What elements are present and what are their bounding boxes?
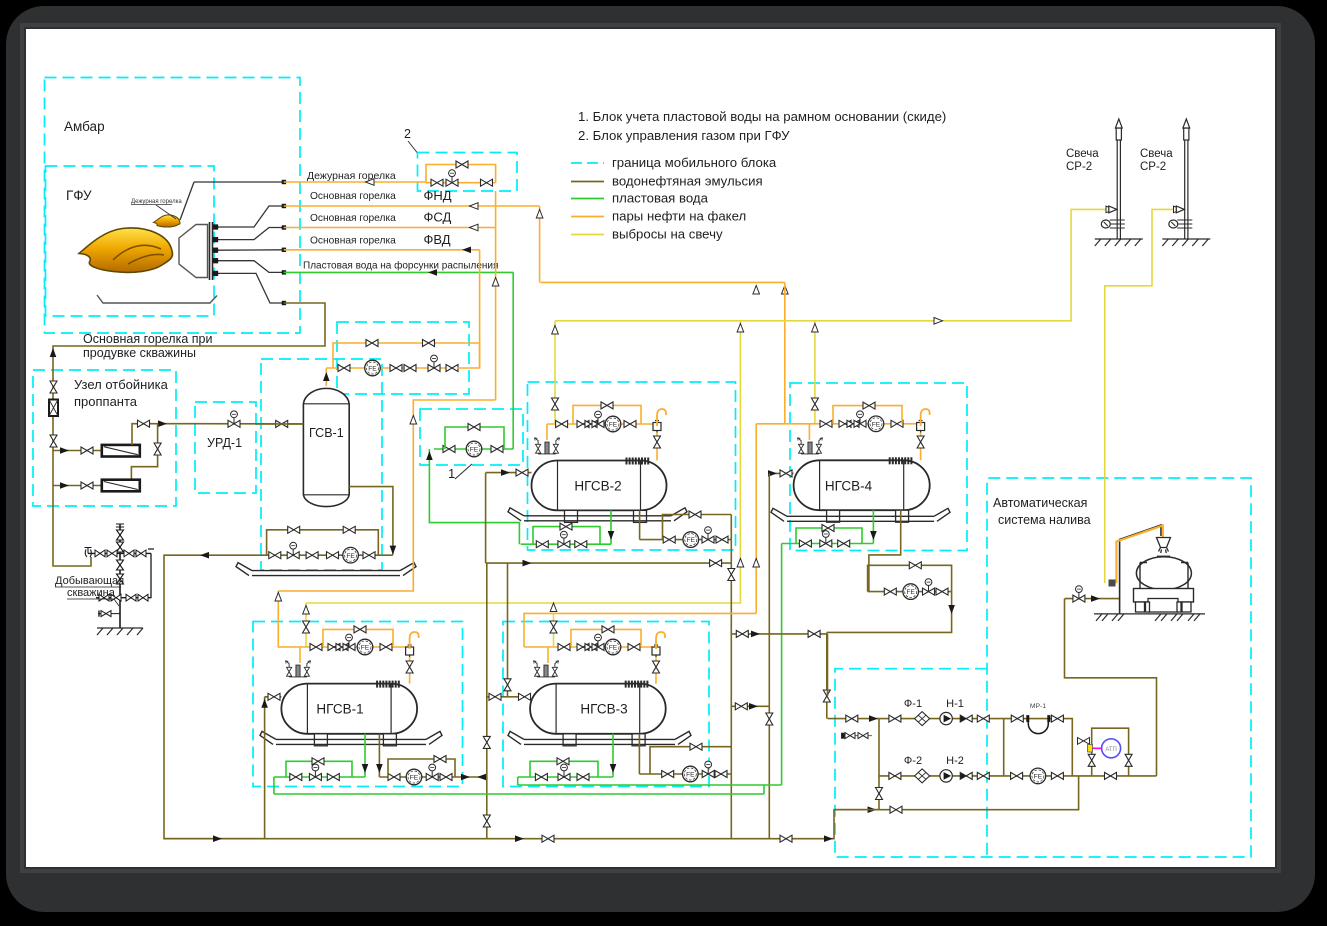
pipe block2 main (426, 182, 496, 184)
valve metering 2 (390, 365, 402, 372)
boundary box 2 (блок управления газом) (418, 153, 518, 192)
flow meter FE НГСВ-1 oil (406, 769, 422, 785)
ground under truck (1094, 614, 1205, 621)
valve НГСВ-2 oil 2 (716, 536, 728, 543)
pipe header riser to НГСВ-4 area (784, 282, 786, 423)
svg-text:Дежурная горелка: Дежурная горелка (131, 199, 182, 205)
wire дежурная горелка horizontal (194, 181, 284, 183)
pipe upper-lower connector (131, 424, 157, 480)
svg-text:скважина: скважина (67, 587, 116, 599)
valve metering 4 (446, 365, 458, 372)
pipe НГСВ-1 inlet riser (264, 697, 266, 839)
safety valves PSV НГСВ-3 (533, 661, 558, 677)
pipe НГСВ-4 inlet (769, 472, 793, 474)
arrow svecha-1 inlet (1106, 206, 1115, 213)
valve block1 right (491, 446, 503, 453)
valve НГСВ-3 inlet b (519, 693, 531, 700)
valve block1 left (443, 446, 455, 453)
pipe ГСВ-1 gas riser (325, 368, 327, 386)
pipe НГСВ-3 relief riser (553, 613, 555, 647)
pipe ФВД riser (479, 250, 481, 368)
arrow to УРД (158, 420, 167, 427)
pipe НГСВ-4 water out riser (781, 544, 783, 786)
pipe НГСВ-1 oil main (379, 776, 486, 778)
safety valves PSV НГСВ-1 (285, 661, 310, 677)
arrow svecha-2 inlet (1174, 206, 1183, 213)
burner pin stubs (213, 225, 220, 275)
pipe НГСВ-2 inlet riser (485, 473, 487, 563)
valve НГСВ-3 oil 1 (662, 771, 674, 778)
valve НГСВ-1 gas bypass (354, 626, 366, 633)
arrow bottom header 1 (213, 835, 222, 842)
svg-text:1. Блок учета пластовой воды н: 1. Блок учета пластовой воды на рамном о… (578, 109, 946, 124)
valve НГСВ-3 inlet a (489, 693, 501, 700)
pipe НГСВ-3 oil drop (638, 734, 640, 774)
pipe ГСВ-1 bottom outlet (349, 487, 393, 555)
control valve НГСВ-2 gas (592, 411, 604, 427)
valve oil collector v1 (728, 569, 735, 581)
valve НГСВ-2 water bypass (560, 523, 572, 530)
valve НГСВ-4 gas 1 (820, 420, 832, 427)
hook sample point НГСВ-1 (410, 632, 419, 649)
arrow loading (1091, 595, 1100, 602)
valve ГСВ drain c (327, 552, 339, 559)
valve pump2 out (977, 772, 989, 779)
arrow svecha header right (934, 318, 943, 325)
pipe metering bypass 1 (333, 343, 415, 368)
pipe НГСВ-1 water bypass (286, 761, 352, 777)
arrow НГСВ-2 inlet (501, 469, 510, 476)
valve central A v2 (483, 815, 490, 827)
valve block2 main left (431, 179, 443, 186)
ground under wellhead (97, 628, 143, 635)
svg-text:НГСВ‑3: НГСВ‑3 (580, 702, 627, 717)
pipe block1 inlet riser (429, 449, 519, 544)
proppant filter upper (102, 445, 140, 457)
valve ГСВ drain a (269, 552, 281, 559)
wire пластовая вода на форсунки (burner side) (219, 261, 284, 273)
svg-text:Н‑1: Н‑1 (946, 698, 964, 710)
pipe ФНД burner line (284, 205, 540, 207)
valve НГСВ-4 gas 2 (839, 420, 851, 427)
valve НГСВ-1 oil bypass (434, 756, 446, 763)
svg-text:Автоматическая: Автоматическая (993, 496, 1087, 510)
pipe ГСВ-1 inlet (256, 423, 303, 425)
valve pump tie v (876, 788, 883, 800)
valve НГСВ-3 gas 2b (585, 644, 597, 651)
arrow on форсунки line (428, 269, 437, 276)
boundary box metering above ГСВ-1 (337, 322, 469, 394)
valve налива loop 1 (884, 588, 896, 595)
svg-text:Узел отбойника: Узел отбойника (74, 377, 169, 392)
svg-text:НГСВ‑1: НГСВ‑1 (316, 702, 363, 717)
pipe НГСВ-1 inlet (265, 696, 282, 698)
pipe НГСВ-2 gas riser (546, 424, 548, 440)
arrow ГСВ-1 gas up (323, 372, 330, 381)
pipe НГСВ-1 gas riser2 (299, 647, 301, 663)
flow meter FE ГСВ drain (343, 547, 359, 563)
arrow branch lower (60, 482, 69, 489)
truck wheels (1136, 602, 1192, 612)
pump Н-1 (940, 712, 952, 724)
arrow НГСВ-1 oil left (477, 774, 486, 781)
arrow transfer right (523, 560, 532, 567)
pipe after upper filter (132, 424, 195, 445)
wire продувка (burner side) (219, 273, 284, 303)
pipe relief riser НГСВ-2 (554, 321, 556, 424)
wire junction square (282, 301, 286, 305)
filter Ф-2 (915, 769, 930, 783)
check valve Н-2 (960, 772, 972, 779)
valve transfer налива 2 (808, 630, 820, 637)
gauge square НГСВ-1 (406, 645, 414, 657)
boundary box Узел отбойника проппанта (33, 370, 176, 506)
valve НГСВ-4 water bypass (822, 525, 834, 532)
pipe налива FE loop bypass (868, 565, 952, 591)
valve pump2 in (889, 772, 901, 779)
wire junction square (282, 270, 286, 274)
device АТП-1 circle (1102, 739, 1121, 758)
valve metering bypass1 (366, 340, 378, 347)
control valve НГСВ-4 water (820, 531, 832, 547)
arrow on дежурная line (366, 179, 375, 186)
pipe НГСВ-1 oil bypass (388, 759, 455, 777)
valve НГСВ-1 water 1 (290, 774, 302, 781)
pipe flare header (541, 281, 785, 283)
pipe НГСВ-3 water main (518, 776, 613, 778)
valve relief НГСВ-1 (303, 621, 310, 633)
pipe пластовая вода на форсунки (284, 271, 514, 273)
underline of small label (131, 204, 172, 206)
arrow НГСВ-1 gas up (410, 416, 417, 425)
leader line to pilot flame (156, 205, 176, 219)
svg-text:Ф‑1: Ф‑1 (904, 698, 922, 710)
pipe proppant branch upper (54, 450, 103, 452)
svg-text:2: 2 (404, 127, 411, 141)
valve bottom header (542, 835, 554, 842)
flow meter FE НГСВ-2 oil (683, 532, 699, 548)
valve on lower-upper connector (154, 443, 161, 455)
wire junction square (282, 180, 286, 184)
pipe налива FE loop main (868, 591, 952, 593)
valve ГСВ drain b (306, 552, 318, 559)
arrow on ФНД line (470, 203, 479, 210)
valve МР-1 in (1011, 715, 1023, 722)
ground under stack 1 (1095, 239, 1143, 246)
hook sample point НГСВ-3 (656, 632, 665, 649)
pipe cross to НГСВ-4 riser (731, 705, 769, 707)
control valve НГСВ-3 water (558, 764, 570, 780)
svg-text:Основная горелка: Основная горелка (310, 236, 396, 247)
svg-text:Дежурная горелка: Дежурная горелка (307, 170, 396, 182)
inline filter on riser (49, 400, 58, 417)
valve relief НГСВ-2 (552, 398, 559, 410)
pipe water header lower (274, 793, 764, 795)
valve НГСВ-2 gas 2b (585, 421, 597, 428)
svg-text:Пластовая вода на форсунки рас: Пластовая вода на форсунки распыления (303, 260, 498, 272)
control valve ГСВ drain (287, 542, 299, 558)
svg-text:Основная горелка при: Основная горелка при (83, 332, 212, 346)
svg-text:ФСД: ФСД (424, 210, 452, 225)
valve pump1 out (977, 715, 989, 722)
arrow block1 in up (426, 451, 433, 460)
safety valves PSV НГСВ-4 (797, 438, 822, 454)
wellhead vertical stem (119, 524, 121, 628)
pipe НГСВ-1 oil drop (378, 734, 380, 777)
boundary box Амбар (45, 78, 301, 334)
valve branch upper (81, 447, 93, 454)
valve НГСВ-4 riser v (766, 713, 773, 725)
wellhead upper arm valves (95, 550, 146, 557)
flow meter FE НГСВ-3 gas (605, 639, 621, 655)
valve НГСВ-3 gas 1 (558, 644, 570, 651)
pipe НГСВ-3 gas out (647, 647, 656, 684)
pipe relief riser НГСВ-1 (305, 603, 307, 647)
arrow НГСВ-3 water down (610, 764, 617, 773)
valve НГСВ-2 water 1 (536, 541, 548, 548)
valve ГСВ bypass 2 (343, 526, 355, 533)
flow meter FE НГСВ-4 gas (868, 416, 884, 432)
control valve НГСВ-3 oil (702, 761, 714, 777)
pipe НГСВ-1 gas link (278, 400, 495, 591)
pipe bottom pump return (834, 776, 1079, 810)
safety valves PSV НГСВ-2 (534, 438, 559, 454)
pipe НГСВ-1 water drop (364, 734, 366, 777)
pipe НГСВ-3 oil bypass (650, 747, 731, 774)
wellhead left gauge hooks (85, 548, 92, 558)
hook sample point НГСВ-2 (657, 409, 666, 426)
wellhead upper arm (88, 552, 151, 554)
valve on riser 2 (50, 435, 57, 447)
flow meter FE налив (1030, 768, 1046, 784)
boundary box Автоматическая система налива (L-shape) (835, 478, 1251, 857)
valve НГСВ-2 water 2 (575, 541, 587, 548)
gauge square НГСВ-2 (653, 421, 661, 433)
arrow bottom header 2 (515, 835, 524, 842)
arrow НГСВ-4 inlet (768, 470, 777, 477)
АТП signal line magenta (1092, 747, 1101, 749)
pipe НГСВ-4 gas bypass (833, 406, 902, 424)
skid under НГСВ-1 (260, 731, 442, 744)
arrow relief collector up1 (737, 324, 744, 333)
valve НГСВ-4 gas out v (917, 436, 924, 448)
arrow налива loop down (948, 605, 955, 614)
pipe НГСВ-2 oil collector (730, 515, 732, 839)
pipe НГСВ-4 inlet riser (768, 473, 770, 838)
underline and leader for well label (55, 587, 121, 606)
pipe ФСД burner line (284, 227, 496, 229)
svg-text:ГСВ‑1: ГСВ‑1 (309, 426, 344, 440)
wellhead stem top fittings (116, 524, 124, 552)
gauge square НГСВ-4 (917, 421, 925, 433)
valve МР-1 out (1051, 715, 1063, 722)
pipe block1 outlet (511, 448, 514, 450)
flow meter FE налива (903, 584, 919, 600)
valve НГСВ-3 relief (550, 621, 557, 633)
pipe block1 main (434, 448, 511, 450)
pipe форсунки riser (512, 272, 514, 449)
pipe ФСД riser (495, 191, 497, 400)
svg-text:выбросы на свечу: выбросы на свечу (612, 227, 723, 242)
vessel НГСВ-1 (281, 684, 417, 734)
pipe НГСВ-2 water drop (610, 510, 612, 544)
pipe НГСВ-3 water bypass (530, 761, 598, 777)
pipe НГСВ-4 gas riser (808, 424, 810, 440)
wellhead drain stub (98, 611, 120, 617)
svg-text:ГФУ: ГФУ (66, 188, 92, 203)
arrow НГСВ-4 water down (870, 531, 877, 540)
valve НГСВ-3 oil 2 (715, 771, 727, 778)
truck lower body (1148, 599, 1178, 613)
pipe НГСВ-2 water bypass (533, 527, 600, 545)
boundary box ГФУ (46, 166, 215, 316)
wire junction square (282, 248, 286, 252)
pipe НГСВ-2 transfer line (486, 562, 732, 564)
arrow НГСВ-1 gas link up (275, 593, 282, 602)
legend line пластовая вода (571, 198, 604, 200)
flare stack свеча СР-2 №1 (1101, 119, 1125, 239)
pipe НГСВ-4 gas out (910, 424, 921, 461)
pipe ФНД riser (539, 206, 541, 282)
pipe metering bypass 2 (415, 343, 480, 368)
arrow НГСВ-1 oil right (461, 774, 470, 781)
filter Ф-1 (915, 712, 930, 726)
valve НГСВ-4 gas 3 (891, 420, 903, 427)
pipe svecha header (555, 209, 1116, 320)
arrow branch upper (60, 447, 69, 454)
pipe НГСВ-2 gas bypass (573, 405, 641, 424)
pipe НГСВ-4 gas main (785, 423, 910, 425)
svg-text:Свеча: Свеча (1140, 148, 1173, 160)
pipe МР-1 line (1004, 719, 1073, 776)
ground under stack 2 (1162, 239, 1210, 246)
legend line водонефтяная эмульсия (571, 181, 604, 183)
pipe pump cross tie (1003, 719, 1005, 776)
valve metering bypass2 (423, 340, 435, 347)
pipe налива suction riser top (827, 634, 829, 696)
flow meter FE НГСВ-2 gas (605, 416, 621, 432)
valve НГСВ-1 oil 1 (388, 774, 400, 781)
pipe gas link top (756, 423, 785, 425)
arrow gas link up1 (753, 559, 760, 568)
arrow НГСВ-1 inlet up (261, 699, 268, 708)
pipe ГСВ drain to well line (164, 555, 265, 839)
pipe НГСВ-3 oil main (639, 773, 731, 775)
wellhead right bridle (148, 549, 154, 598)
boundary box УРД-1 (195, 402, 256, 493)
pipe pump left tie (878, 719, 880, 810)
valve НГСВ-1 gas out v (406, 661, 413, 673)
pipe transfer to налива (731, 633, 827, 635)
loading mast (1120, 525, 1161, 614)
pipe продувка to well (53, 303, 325, 566)
arrow ФСД riser up (492, 278, 499, 287)
valve НГСВ-4 gas bypass (863, 402, 875, 409)
wellhead mid stem valves (117, 560, 124, 584)
pipe svecha-2 line (1105, 209, 1184, 583)
control valve НГСВ-2 oil (702, 527, 714, 543)
pipe НГСВ-2 inlet (486, 472, 532, 474)
pipe pump suction (828, 718, 1004, 720)
wire основная горелка ФВД (burner side) (219, 249, 284, 251)
pipe АТП frame (1092, 728, 1129, 776)
flow meter FE НГСВ-1 gas (357, 639, 373, 655)
valve block1 bypass (468, 424, 480, 431)
svg-text:проппанта: проппанта (74, 394, 138, 409)
svg-text:система налива: система налива (998, 513, 1091, 527)
АТП sensor yellow mark (1088, 745, 1093, 753)
valve НГСВ-1 gas 3 (380, 644, 392, 651)
valve НГСВ-4 gas 2b (847, 420, 859, 427)
control valve УРД-1 (228, 411, 240, 427)
arrow ФНД riser up (536, 210, 543, 219)
loading funnel (1157, 538, 1171, 554)
arrow relief collector up2 (737, 559, 744, 568)
legend line выбросы на свечу (571, 234, 604, 236)
pipe water header jog (518, 785, 764, 794)
pipe НГСВ-3 gas link (524, 613, 756, 647)
skid under НГСВ-2 (508, 508, 687, 521)
pipe НГСВ-2 gas main (547, 423, 648, 425)
valve НГСВ-3 water 2 (577, 774, 589, 781)
pipe НГСВ-2 water main (521, 543, 611, 545)
valve НГСВ-2 gas 3 (624, 421, 636, 428)
pipe НГСВ-1 gas main (280, 646, 400, 648)
valve НГСВ-1 gas 1 (310, 644, 322, 651)
boundary box ГСВ-1 (261, 359, 382, 570)
wellhead lower arm (96, 597, 152, 599)
pipe НГСВ-2 oil main (640, 539, 732, 541)
valve pump1 in (889, 715, 901, 722)
valve branch lower (81, 482, 93, 489)
control valve НГСВ-2 water (558, 531, 570, 547)
valve НГСВ-2 gas 2 (577, 421, 589, 428)
flare stack свеча СР-2 №2 (1169, 119, 1193, 239)
valve налива suction v (823, 690, 830, 702)
valve on riser (50, 381, 57, 393)
arrow НГСВ-1 water down (362, 764, 369, 773)
pump Н-2 (940, 770, 952, 782)
control valve loading (1073, 586, 1085, 602)
valve НГСВ-4 inlet (780, 470, 792, 477)
pipe НГСВ-1 gas bypass (323, 629, 393, 647)
pipe truck loading line (1065, 598, 1120, 600)
small valve АТП stub (1078, 738, 1090, 745)
valve НГСВ-3 gas 3 (628, 644, 640, 651)
valve НГСВ-1 inlet (268, 693, 280, 700)
control valve НГСВ-1 oil (426, 764, 438, 780)
valve НГСВ-2 oil 1 (663, 536, 675, 543)
control valve налива loop (923, 579, 935, 595)
svg-text:1: 1 (448, 466, 455, 481)
skid under НГСВ-3 (508, 731, 691, 744)
pipe relief riser НГСВ-4 (814, 321, 816, 424)
vessel НГСВ-4 (794, 460, 930, 510)
valve налива loop 2 (936, 588, 948, 595)
legend line пары нефти на факел (571, 216, 604, 218)
valve block2 main right (481, 179, 493, 186)
valve cross 44 (735, 703, 747, 710)
pipe НГСВ-3 gas bypass (571, 629, 641, 647)
wire дежурная горелка (burner side) (180, 182, 194, 220)
wire основная горелка ФНД (burner side) (219, 206, 284, 227)
valve НГСВ-2 gas bypass (601, 402, 613, 409)
pipe relief collector riser (306, 321, 740, 603)
boundary box 1 (блок учета пластовой воды) (420, 409, 523, 465)
truck tank ellipse (1136, 557, 1191, 590)
svg-text:УРД-1: УРД-1 (207, 436, 242, 450)
vessel НГСВ-3 (530, 684, 666, 734)
